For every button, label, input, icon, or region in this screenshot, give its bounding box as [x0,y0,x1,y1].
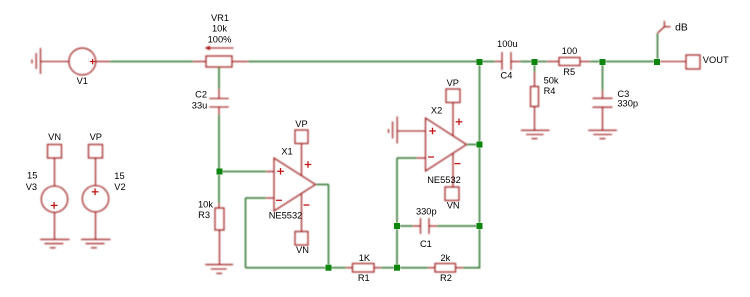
wire C1 row right [437,225,477,227]
svg-text:2k: 2k [440,253,450,263]
svg-text:100: 100 [562,46,578,56]
svg-text:33u: 33u [192,100,208,110]
svg-text:dB: dB [675,22,688,33]
capacitor C4 [495,52,520,70]
label V3 value [26,171,38,192]
svg-text:330p: 330p [416,206,437,216]
svg-text:10k: 10k [198,200,213,210]
wire right column (C1 row down to R2 row) [479,229,481,268]
label C3 value [617,89,638,108]
terminal VOUT square [686,55,700,69]
capacitor C3 [593,90,613,130]
wire C2 to node A [218,115,220,172]
svg-text:50k: 50k [544,76,559,86]
svg-text:15: 15 [27,171,37,181]
ground (below V3) [40,239,70,247]
X1 power + mark (vert) [307,161,309,168]
wire node H down to R4 [534,65,536,73]
wire X2 output to node E [467,144,477,146]
label R4 value [544,76,559,96]
V1 polarity mark + (vert) [92,59,94,65]
ground (input, rotated, at V1 left) [32,48,41,74]
resistor R5 [547,58,590,66]
wire node D up to X2 - input [397,158,417,223]
svg-text:330p: 330p [617,99,638,109]
svg-text:R2: R2 [440,273,452,283]
voltage source V3 (negative supply) [41,145,67,240]
label V2 value [114,171,125,192]
wire R1 to node C [381,267,394,269]
wire node C up to C1 row [396,229,398,265]
V1 polarity mark + (horiz) [90,61,96,63]
probe dB (voltmeter) [657,33,659,59]
node C junction (R1/R2/C1 branch) [394,265,400,271]
X1 power + mark (horiz) [305,164,312,166]
node E junction (X2 output) [477,142,483,148]
X2 power + mark (horiz) [456,121,463,123]
svg-text:VR1: VR1 [211,13,229,23]
X1 input + mark (horiz) [277,170,284,172]
op-amp X1 (NE5532) [266,144,316,232]
V2 polarity mark + (horiz) [92,191,99,193]
label R3 value [198,200,213,220]
wire node A down to R3 [218,175,220,204]
X2 input - mark [428,156,434,158]
svg-text:VN: VN [296,245,309,255]
voltage source V2 (positive supply) [82,145,108,240]
node G junction (top rail / right column) [477,59,483,65]
wire right column (node E up to top rail) [479,65,481,142]
resistor R2 [428,264,463,273]
ground (below C3) [588,130,617,138]
node I junction (R5/C3) [600,59,606,65]
wire X1 output down to node B [316,185,329,265]
svg-text:C1: C1 [420,239,432,249]
V2 polarity mark + (vert) [94,188,96,195]
X2 power - mark [455,163,461,165]
voltage source V1 [41,48,111,75]
wire R5 to node I [590,61,600,63]
svg-text:V1: V1 [77,76,88,86]
svg-text:VN: VN [48,132,61,142]
svg-text:X1: X1 [281,146,292,156]
capacitor C2 [209,89,229,115]
op-amp X2 (NE5532) [417,103,467,188]
X2 input + mark (vert) [432,128,434,135]
X2 power + mark (vert) [458,118,460,125]
wire X1 - input feedback [246,198,326,268]
V3 polarity mark + (horiz) [51,204,58,206]
wire C4 to node H [520,61,532,63]
wire VR1 wiper down [218,67,220,90]
wire right column (node E down to C1 row) [479,148,481,224]
node J junction (dB probe tap) [654,59,660,65]
svg-text:VP: VP [295,119,307,129]
potentiometer VR1 [193,48,248,67]
node H junction (C4/R4/R5) [532,59,538,65]
resistor R4 [531,72,539,130]
ground (below R3) [205,265,233,274]
wire node I down to C3 [602,65,604,91]
X1 input - mark [276,199,282,201]
pin VN terminal square (X2) [445,187,459,201]
svg-text:X2: X2 [431,105,442,115]
label VR1 value [208,13,232,45]
svg-text:V2: V2 [114,182,125,192]
svg-text:NE5532: NE5532 [427,175,461,185]
wire node C to R2 [400,267,428,269]
svg-text:10k: 10k [212,24,227,34]
wire node A to X1 + input [223,171,267,173]
svg-text:R1: R1 [358,273,370,283]
svg-text:R3: R3 [198,210,210,220]
svg-text:C2: C2 [195,89,207,99]
node B junction (X1 out / feedback / R1) [326,265,332,271]
svg-text:VP: VP [90,132,102,142]
V3 polarity mark + (vert) [53,202,55,209]
X1 input + mark (vert) [280,168,282,175]
svg-text:C4: C4 [501,71,513,81]
wire node B to R1 [332,267,347,269]
wire node H to R5 [538,61,548,63]
node F junction (C1 right) [477,223,483,229]
ground (below R4) [521,130,550,138]
wire VR1 to top-rail junction [248,61,480,63]
svg-text:100u: 100u [497,39,518,49]
wire C1 row left [400,225,413,227]
ground (X2 + input, rotated) [389,117,426,144]
resistor R3 [215,203,224,265]
svg-text:100%: 100% [208,34,232,44]
capacitor C1 [413,218,437,234]
svg-text:15: 15 [114,171,124,181]
svg-text:NE5532: NE5532 [269,210,303,220]
svg-text:V3: V3 [26,182,37,192]
wire top rail to C4 [483,61,496,63]
resistor R1 [346,264,381,273]
ground (below V2) [81,239,111,247]
X1 power - mark [304,204,310,206]
svg-text:VP: VP [447,78,459,88]
label C2 value [192,89,208,110]
svg-text:R4: R4 [544,86,556,96]
wire R2 to right column [463,267,480,269]
wire node J to VOUT [660,61,686,63]
svg-text:1K: 1K [359,253,371,263]
pin VP terminal square (X2) [446,89,460,103]
node D junction (C1 left / X2 - input) [394,223,400,229]
X2 input + mark (horiz) [429,130,436,132]
svg-text:VOUT: VOUT [703,55,729,65]
wire node I to node J [606,61,655,63]
svg-text:R5: R5 [563,67,575,77]
svg-text:VN: VN [447,200,460,210]
node A junction (C2/R3/X1+) [217,169,223,175]
pin VN terminal square (X1) [295,232,308,246]
pin VP terminal square (X1) [295,130,308,144]
wire V1 to VR1 [110,61,193,63]
